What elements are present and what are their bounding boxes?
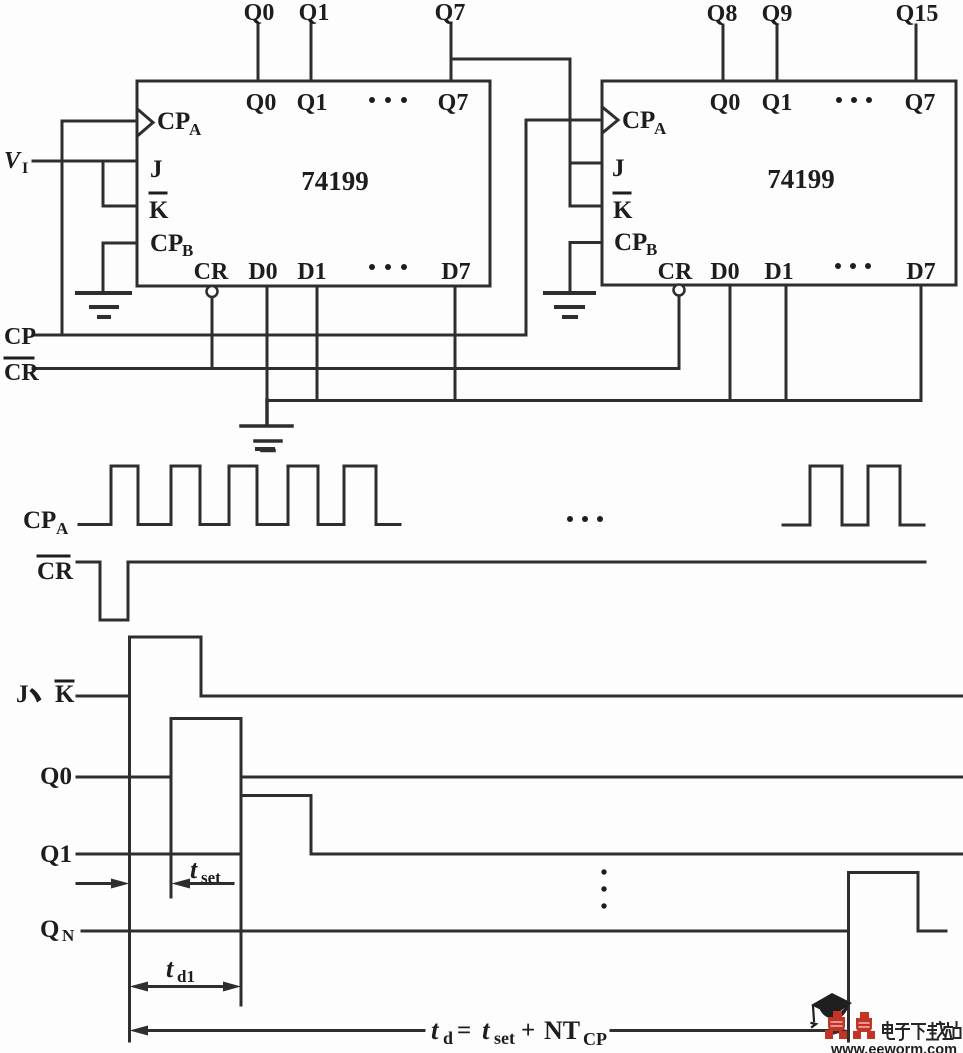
overbar CR bus — [5, 357, 33, 360]
U1 dots top — [369, 97, 407, 103]
reference line QN rise — [847, 931, 850, 1041]
wire Q0 out U1 — [257, 24, 260, 81]
svg-text:D1: D1 — [297, 259, 326, 285]
dots vertical — [601, 869, 606, 908]
ground U2 CPB — [545, 293, 594, 317]
svg-text:Q0: Q0 — [244, 0, 275, 26]
svg-text:Q7: Q7 — [905, 90, 936, 116]
wire CR bus — [33, 367, 679, 370]
svg-text:Q1: Q1 — [762, 90, 793, 116]
wire Q9 out U2 — [776, 26, 779, 81]
ground D bus — [241, 400, 292, 451]
svg-text:K: K — [149, 197, 169, 224]
wire VI input — [33, 160, 137, 163]
waveform J K — [77, 637, 963, 696]
svg-text:D0: D0 — [248, 259, 277, 285]
wire U2 D7 — [920, 285, 923, 401]
svg-text:K: K — [613, 197, 633, 224]
U2 CR bubble — [674, 285, 685, 296]
svg-text:74199: 74199 — [767, 164, 835, 194]
ground U1 CPB — [77, 293, 130, 317]
svg-text:D1: D1 — [764, 259, 793, 285]
svg-text:Q0: Q0 — [246, 90, 277, 116]
td1 arrow — [145, 985, 226, 988]
svg-text:CP: CP — [614, 229, 647, 256]
wire U1 CPB — [103, 243, 137, 291]
wire CP bus — [33, 334, 526, 337]
watermark bug 2 — [853, 1012, 875, 1039]
wire Q15 out U2 — [915, 25, 918, 81]
svg-text:J: J — [150, 156, 163, 183]
svg-text:t: t — [431, 1015, 440, 1045]
td arrow — [145, 1029, 834, 1032]
U2 dots top — [836, 97, 872, 103]
svg-text:A: A — [189, 120, 202, 139]
svg-text:+: + — [521, 1017, 535, 1044]
svg-text:d1: d1 — [177, 967, 195, 986]
ideographic comma — [30, 688, 42, 703]
watermark text site name — [883, 1022, 961, 1040]
svg-text:t: t — [482, 1015, 491, 1045]
svg-text:NT: NT — [544, 1016, 580, 1045]
svg-text:CR: CR — [194, 259, 229, 285]
overbar CR waveform — [38, 555, 69, 558]
svg-text:I: I — [22, 160, 28, 177]
waveform Q0 — [77, 719, 963, 778]
svg-text:CR: CR — [37, 558, 74, 585]
svg-text:Q: Q — [40, 916, 59, 943]
svg-text:CP: CP — [622, 107, 655, 134]
IC U1 clock triangle — [139, 110, 154, 135]
waveform CPA right — [783, 466, 924, 525]
U2 overbar K — [614, 192, 630, 195]
wire CP to U1 CPA — [62, 121, 137, 335]
svg-text:CP: CP — [157, 108, 190, 135]
svg-text:N: N — [62, 926, 75, 945]
svg-text:CR: CR — [4, 360, 39, 386]
svg-text:t: t — [190, 855, 198, 884]
wire Q1 out U1 — [310, 24, 313, 81]
svg-text:Q7: Q7 — [435, 0, 466, 26]
svg-text:J: J — [16, 681, 29, 708]
svg-text:V: V — [4, 148, 22, 174]
svg-text:CR: CR — [658, 259, 693, 285]
svg-text:CP: CP — [4, 324, 36, 350]
svg-text:74199: 74199 — [301, 166, 369, 196]
U1 CR bubble — [207, 286, 218, 297]
svg-text:J: J — [612, 155, 625, 182]
waveform CPA left — [79, 466, 400, 525]
watermark bug 1 — [825, 1011, 847, 1039]
watermark cap — [811, 993, 852, 1027]
IC U2 clock triangle — [604, 108, 619, 132]
svg-text:B: B — [646, 240, 657, 259]
svg-text:D0: D0 — [710, 259, 739, 285]
waveform CR — [77, 562, 925, 620]
reference line JK edge — [128, 696, 131, 1041]
wire Q7 out U1 — [450, 23, 453, 81]
svg-text:set: set — [494, 1028, 515, 1048]
svg-text:A: A — [56, 519, 69, 538]
svg-text:=: = — [457, 1017, 471, 1044]
svg-text:Q8: Q8 — [707, 1, 738, 27]
svg-text:Q1: Q1 — [299, 0, 330, 26]
svg-text:Q15: Q15 — [896, 1, 939, 27]
IC U1 74199 box — [137, 81, 490, 286]
svg-text:CP: CP — [23, 507, 56, 534]
tset arrow right — [188, 882, 233, 885]
wire U1 D7 — [454, 286, 457, 401]
wire U2 CR pin — [678, 295, 681, 369]
dots CPA — [567, 516, 603, 522]
svg-text:set: set — [201, 868, 221, 887]
svg-text:Q1: Q1 — [297, 90, 328, 116]
U1 dots bottom — [369, 264, 407, 270]
U2 dots bottom — [835, 263, 871, 269]
wire Q8 out U2 — [722, 26, 725, 81]
svg-text:A: A — [654, 119, 667, 138]
wire D bus — [267, 399, 921, 402]
wire U1 CR pin — [211, 297, 214, 369]
tset arrow left — [77, 882, 114, 885]
svg-text:D7: D7 — [906, 259, 935, 285]
svg-text:t: t — [166, 954, 174, 983]
wire U2 D1 — [785, 285, 788, 401]
wire U1 J-K tie — [103, 161, 137, 206]
svg-text:CP: CP — [150, 230, 183, 257]
svg-text:CP: CP — [583, 1029, 607, 1049]
wire Q7 to U2 J/K — [451, 59, 602, 206]
wire U1 D1 — [316, 286, 319, 401]
svg-text:www.eeworm.com: www.eeworm.com — [830, 1041, 957, 1053]
svg-text:Q0: Q0 — [40, 763, 72, 790]
IC U2 74199 box — [602, 81, 956, 285]
svg-text:D7: D7 — [441, 259, 470, 285]
wire CP to U2 CPA — [526, 120, 602, 335]
U1 overbar K — [150, 192, 166, 195]
wire U2 CPB — [570, 243, 602, 292]
svg-text:Q0: Q0 — [710, 90, 741, 116]
svg-text:Q7: Q7 — [438, 90, 469, 116]
svg-text:B: B — [182, 241, 193, 260]
svg-text:Q9: Q9 — [762, 1, 793, 27]
reference line Q0 rise — [170, 777, 173, 897]
svg-text:d: d — [443, 1028, 453, 1048]
svg-text:K: K — [55, 681, 75, 708]
artifact dash — [257, 447, 273, 451]
reference line Q0 fall — [240, 777, 243, 1005]
waveform Q1 — [77, 796, 963, 855]
waveform QN — [82, 873, 946, 932]
svg-text:Q1: Q1 — [40, 841, 72, 868]
wire U1 D0 — [266, 286, 269, 401]
overbar K waveform — [56, 680, 73, 683]
wire U2 D0 — [729, 285, 732, 401]
